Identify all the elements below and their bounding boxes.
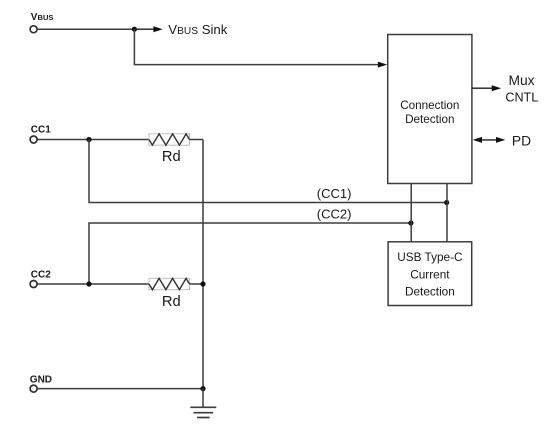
wire CC1 terminal to resistor <box>37 139 149 141</box>
svg-text:PD: PD <box>512 133 531 148</box>
wire CC2 terminal to resistor <box>37 283 149 285</box>
block U2 USB Type-C Current Detection <box>388 242 472 306</box>
svg-text:Rd: Rd <box>162 149 181 165</box>
svg-text:(CC1): (CC1) <box>317 186 352 201</box>
svg-text:GND: GND <box>30 375 52 386</box>
svg-text:VBUS: VBUS <box>31 12 54 23</box>
junction CC2 branch <box>86 281 91 286</box>
wire lead CC1 between blocks <box>446 184 448 242</box>
port VBUS terminal circle <box>30 26 37 33</box>
junction GND at trunk <box>200 386 205 391</box>
wire GND terminal to trunk <box>37 388 203 390</box>
label Connection Detection <box>400 99 459 126</box>
wire VBUS to Connection Detection <box>134 29 378 64</box>
port GND terminal circle <box>30 385 37 392</box>
junction CC1 branch <box>86 137 91 142</box>
resistor Rd (top, CC1) <box>149 134 190 145</box>
wire VBUS terminal to junction <box>37 28 134 30</box>
ground symbol <box>190 389 216 418</box>
port CC1 terminal circle <box>30 136 37 143</box>
junction (CC1) at detection lead <box>444 200 449 205</box>
resistor Rd (bottom, CC2) <box>149 278 190 289</box>
arrow to VBUS Sink <box>134 26 162 32</box>
junction VBUS branch <box>132 27 137 32</box>
junction (CC2) at detection lead <box>408 220 413 225</box>
block U1 Connection Detection <box>388 35 472 184</box>
svg-text:CNTL: CNTL <box>505 90 538 104</box>
svg-text:USB Type-C: USB Type-C <box>397 250 463 264</box>
svg-text:Current: Current <box>410 268 450 282</box>
wire net (CC2) from junction to detection block <box>89 223 411 284</box>
double arrow PD <box>473 137 506 143</box>
port CC2 terminal circle <box>30 281 37 288</box>
svg-text:Detection: Detection <box>405 285 455 299</box>
junction Rd bottom to trunk <box>200 281 205 286</box>
svg-text:CC2: CC2 <box>31 269 51 280</box>
svg-text:Detection: Detection <box>405 113 454 126</box>
wire vertical trunk (Rd outputs to ground) <box>202 140 204 389</box>
svg-text:Connection: Connection <box>400 99 459 112</box>
arrow Mux CNTL output <box>472 85 501 91</box>
wire lead CC2 between blocks <box>410 184 412 242</box>
svg-text:(CC2): (CC2) <box>317 207 352 222</box>
label Mux CNTL <box>505 73 538 104</box>
svg-text:CC1: CC1 <box>31 124 51 135</box>
wire resistor Rd bottom to vertical trunk <box>190 283 204 285</box>
svg-text:Rd: Rd <box>162 294 181 310</box>
svg-text:Mux: Mux <box>508 73 534 88</box>
arrowhead into Connection Detection <box>378 62 387 68</box>
label USB Type-C Current Detection <box>397 250 463 298</box>
wire net (CC1) from junction to detection block <box>89 140 447 203</box>
wire resistor Rd top to vertical trunk <box>190 139 204 141</box>
